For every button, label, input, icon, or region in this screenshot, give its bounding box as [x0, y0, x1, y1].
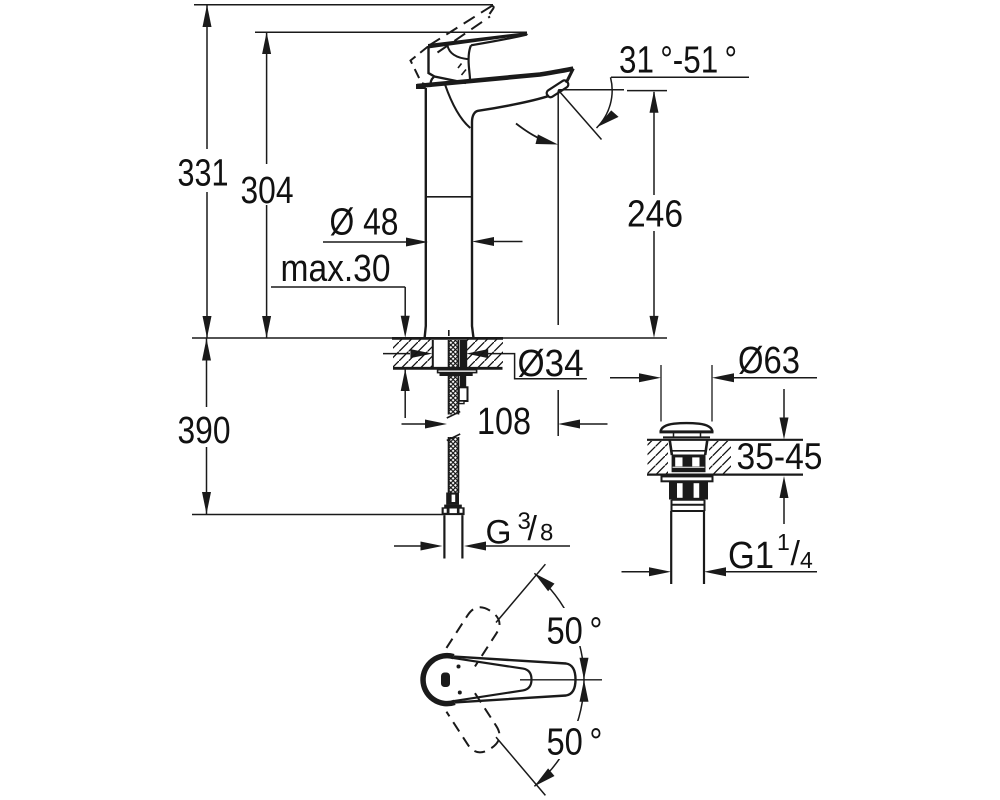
- stud step boxes: [459, 387, 468, 401]
- Ø63 extension lines: [661, 365, 712, 422]
- bottom reference line 390: [192, 514, 443, 516]
- shoulder / spout top thick edge: [417, 69, 573, 86]
- counter hatch left: [393, 339, 433, 368]
- fillet curve: [445, 85, 470, 129]
- dim line 390: [206, 339, 208, 515]
- svg-text:246: 246: [627, 194, 683, 236]
- handle inner pad: [452, 658, 532, 701]
- dim line 304: [266, 32, 268, 338]
- dim G1 1/4: [622, 571, 650, 573]
- angle slant leg: [558, 90, 601, 140]
- svg-text:Ø34: Ø34: [518, 343, 584, 385]
- svg-text:331: 331: [178, 153, 229, 195]
- dim line 331: [206, 5, 208, 338]
- dashed rotated handle upper: [446, 602, 504, 667]
- drain cap dome: [661, 423, 713, 432]
- lever front lip curve: [431, 77, 434, 87]
- dashed raised lever: [429, 6, 492, 46]
- label 50 upper: [546, 608, 604, 646]
- lever neck: [469, 45, 471, 79]
- dim Ø34: [383, 353, 410, 355]
- svg-text:50 °: 50 °: [547, 611, 603, 653]
- handle button: [441, 673, 450, 688]
- dim 35-45 lower arrow: [780, 476, 789, 498]
- dim G3/8: [394, 545, 421, 547]
- svg-text:max.30: max.30: [281, 248, 391, 290]
- angle arc: [597, 77, 613, 128]
- lever block left edge: [429, 46, 467, 83]
- handle centerline: [520, 679, 602, 681]
- column right edge: [472, 122, 474, 338]
- handle dots: [457, 665, 461, 669]
- handle plan outer outline: [454, 657, 576, 703]
- drain body in basin: [670, 440, 708, 455]
- reference line 304: [255, 31, 527, 33]
- upper 50 deg arc: [534, 573, 584, 680]
- drain slotted section: [672, 455, 706, 473]
- lower 50 deg arc: [534, 680, 584, 787]
- svg-text:8: 8: [540, 520, 553, 547]
- svg-text:304: 304: [241, 170, 294, 212]
- dashed rotated handle lower: [446, 693, 504, 758]
- dim 246: [627, 90, 667, 92]
- hose end ferrule: [446, 493, 459, 505]
- svg-text:1: 1: [777, 529, 790, 555]
- angle vertex short horizontal: [558, 89, 624, 91]
- svg-text:35-45: 35-45: [737, 436, 823, 477]
- column joint line: [427, 196, 472, 198]
- drain washer below basin: [662, 476, 713, 481]
- counter hatch right: [466, 339, 503, 368]
- basin hatch right: [709, 441, 731, 474]
- spout tip nose: [566, 69, 573, 83]
- dim 35-45 upper arrow: [783, 389, 785, 418]
- svg-text:Ø63: Ø63: [738, 340, 800, 382]
- dim 108: [402, 423, 426, 425]
- counter top reference line: [192, 337, 667, 339]
- dim 108 vertical reference at spout tip: [557, 91, 559, 437]
- drain nut: [669, 481, 708, 499]
- nut top band: [440, 373, 473, 376]
- connection pipe: [444, 515, 462, 558]
- svg-text:4: 4: [800, 547, 813, 573]
- aerator: [545, 79, 569, 98]
- basin bottom line: [647, 474, 803, 476]
- svg-text:/: /: [791, 535, 801, 573]
- svg-text:/: /: [528, 510, 538, 548]
- rotation arrow at spout: [516, 124, 551, 143]
- counter bottom edge: [393, 367, 503, 370]
- braided hose below break: [449, 437, 459, 493]
- svg-text:31 °-51 °: 31 °-51 °: [619, 40, 737, 82]
- handle plan left bold arc: [423, 656, 455, 704]
- label 50 lower: [546, 721, 604, 759]
- spout underside: [472, 96, 549, 122]
- svg-text:108: 108: [477, 401, 531, 443]
- hose end collar: [444, 505, 462, 508]
- column left edge: [425, 88, 426, 338]
- svg-text:G: G: [486, 514, 512, 552]
- top reference line 331: [194, 4, 493, 6]
- hole side edges: [433, 340, 466, 368]
- svg-text:50 °: 50 °: [547, 722, 603, 764]
- svg-text:390: 390: [178, 410, 231, 452]
- svg-text:Ø 48: Ø 48: [330, 202, 399, 244]
- cartridge dome curve: [448, 46, 469, 60]
- counter top edge: [392, 337, 503, 340]
- drain pipe: [671, 511, 704, 584]
- threaded stud black bar: [460, 340, 466, 387]
- upper slant leg: [496, 564, 545, 622]
- basin top line: [647, 439, 803, 441]
- drain rings: [672, 500, 705, 511]
- hidden lever dashes inside block: [458, 64, 466, 76]
- braided hose through counter: [449, 340, 459, 415]
- hose end nut G3/8: [442, 507, 465, 515]
- basin hatch left: [648, 441, 669, 474]
- lever blade solid: [428, 32, 528, 48]
- flange washer under counter: [438, 370, 477, 373]
- lower slant leg: [496, 737, 545, 795]
- svg-text:G1: G1: [728, 535, 774, 577]
- hidden hose tick at column bottom: [448, 330, 450, 336]
